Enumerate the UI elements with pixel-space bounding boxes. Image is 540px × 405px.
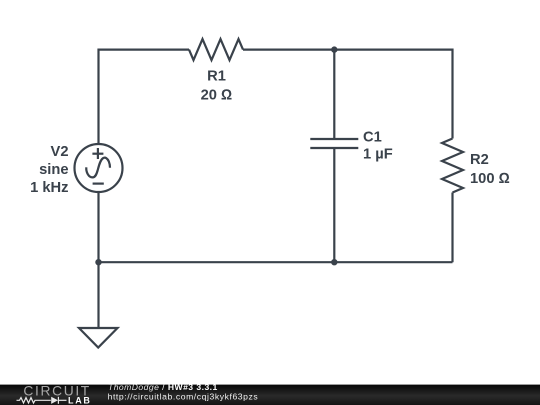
wire capacitor branch upper xyxy=(333,50,335,139)
capacitor C1 xyxy=(310,139,358,148)
svg-text:R2: R2 xyxy=(470,152,489,168)
resistor R2 xyxy=(442,139,463,193)
wire left vertical lower xyxy=(97,192,99,262)
node junction bottom-left xyxy=(95,259,101,265)
node junction bottom-middle xyxy=(331,259,337,265)
svg-text:20 Ω: 20 Ω xyxy=(201,88,233,104)
wire capacitor branch lower xyxy=(333,148,335,262)
wire top-right segment xyxy=(243,50,453,139)
svg-text:sine: sine xyxy=(39,162,68,178)
svg-text:R1: R1 xyxy=(207,69,226,85)
svg-text:100 Ω: 100 Ω xyxy=(470,171,510,187)
ground xyxy=(79,262,118,347)
svg-text:1 kHz: 1 kHz xyxy=(30,180,68,196)
svg-text:1 µF: 1 µF xyxy=(363,147,393,163)
label C1 name/value xyxy=(363,130,393,163)
resistor R1 xyxy=(189,39,243,60)
voltage source V2 xyxy=(75,144,123,192)
svg-text:LAB: LAB xyxy=(68,395,92,405)
wire top-left segment xyxy=(99,50,190,144)
label R2 name/value xyxy=(470,152,510,187)
wire right vertical lower xyxy=(451,193,453,263)
footer bar xyxy=(0,385,540,405)
CircuitLab logo resistor-diode glyph xyxy=(17,397,67,404)
svg-text:http://circuitlab.com/cqj3kykf: http://circuitlab.com/cqj3kykf63pzs xyxy=(108,391,259,401)
svg-text:V2: V2 xyxy=(51,144,69,160)
node junction top (capacitor tap) xyxy=(331,46,337,52)
label R1 name/value xyxy=(201,69,233,104)
label V2 name/value xyxy=(30,144,68,196)
svg-text:C1: C1 xyxy=(363,130,382,146)
wire bottom xyxy=(99,261,453,263)
